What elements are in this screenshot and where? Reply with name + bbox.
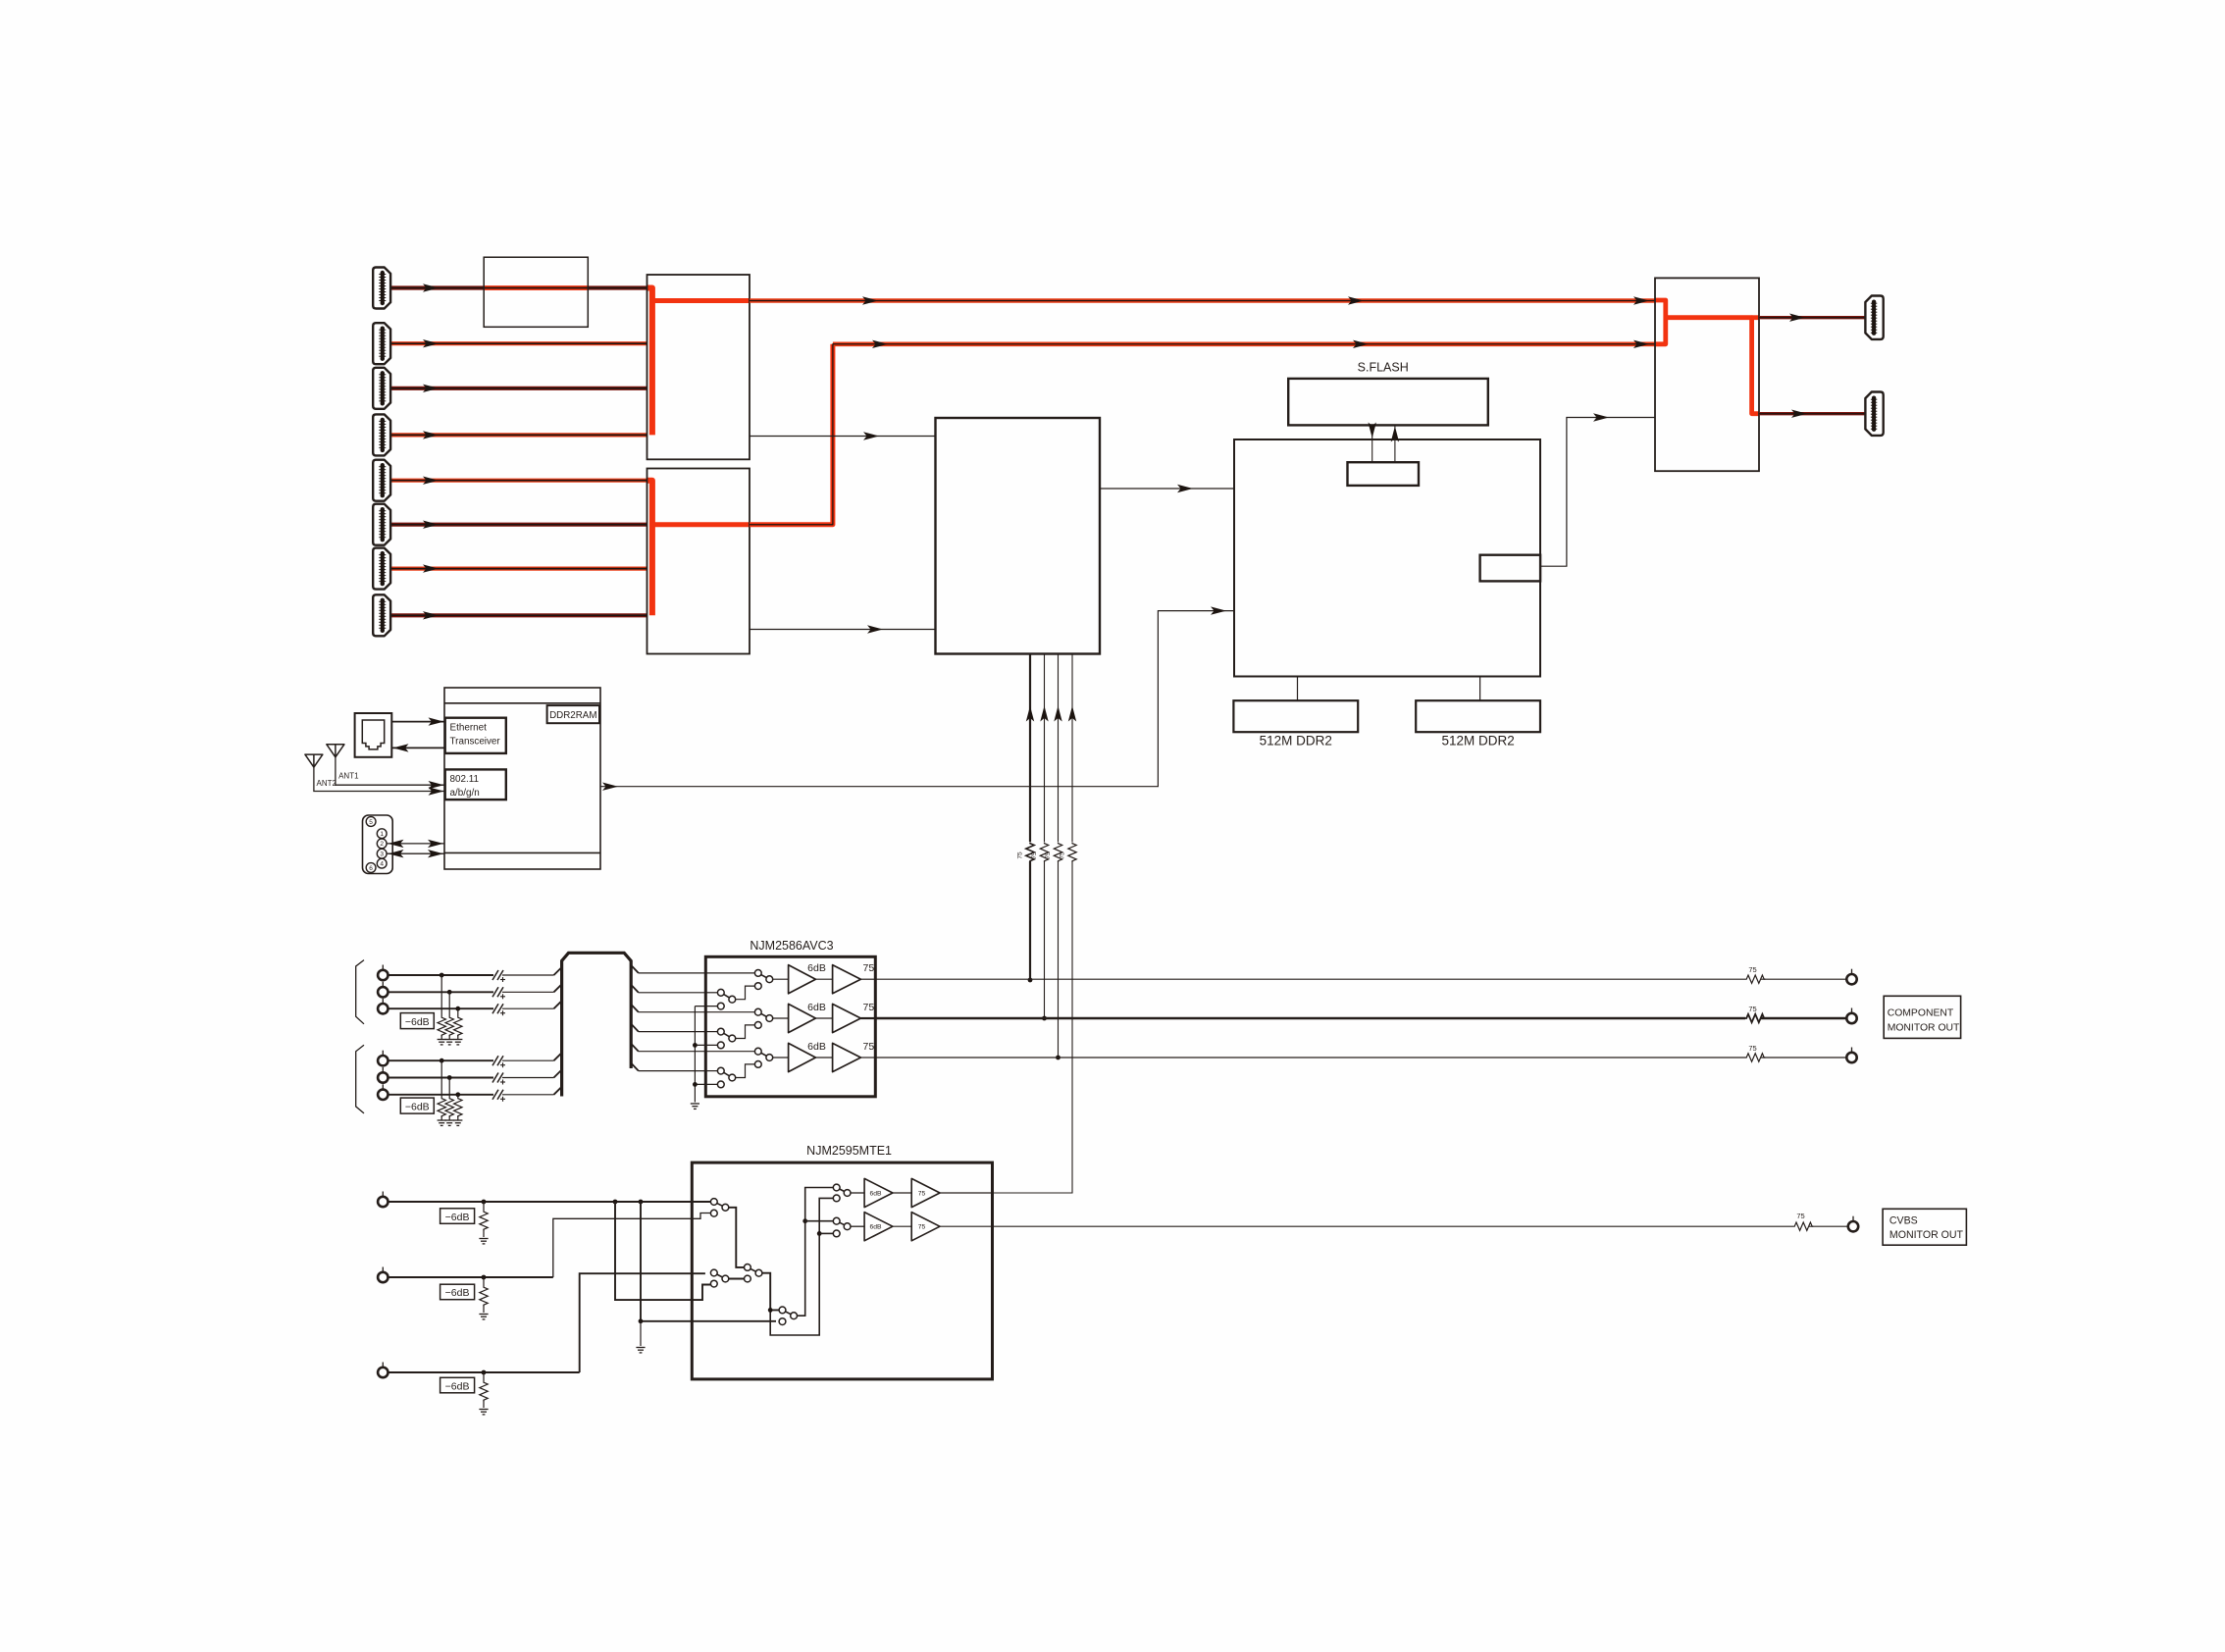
svg-text:6dB: 6dB	[869, 1190, 882, 1197]
core of switch A output line	[750, 300, 1655, 302]
wire receiver to SoC	[1100, 488, 1234, 490]
row2 amp link	[815, 1017, 832, 1019]
core of switch B output line	[750, 344, 1655, 525]
bus exit tap 6	[631, 1063, 639, 1071]
switch D common riser	[797, 1188, 833, 1316]
core wire HDMI OUT 2	[1759, 413, 1865, 415]
switch B top contact	[710, 1269, 717, 1276]
svg-text:75: 75	[1017, 852, 1024, 859]
svg-text:4: 4	[380, 861, 384, 868]
svg-text:75: 75	[1748, 1044, 1756, 1053]
svg-text:6dB: 6dB	[807, 1002, 826, 1013]
HDMI output connector 2	[1865, 392, 1883, 436]
RCA jack component group2 3	[378, 1084, 388, 1100]
amp 75 NJM2595 row2	[911, 1213, 940, 1241]
row1 stage1 to stage2 wire	[736, 986, 755, 1000]
switch F bar	[837, 1221, 848, 1227]
-6dB attenuator label group1	[400, 1013, 434, 1029]
svg-text:S.FLASH: S.FLASH	[1358, 361, 1409, 375]
row1 stage1 switch bar	[721, 993, 733, 1000]
row2 stage1 bottom contact	[717, 1042, 724, 1049]
NJM2586 ground bus	[694, 1007, 696, 1103]
row2 input B wire	[705, 1031, 717, 1033]
pin 6 of control connector	[366, 863, 376, 873]
row3 input B wire	[705, 1070, 717, 1072]
wire HDMI IN 7 to switch block	[390, 566, 647, 570]
row3 stage1 bottom contact	[717, 1081, 724, 1088]
bus exit tap 2	[631, 985, 639, 993]
junction ground bus row2	[693, 1043, 698, 1048]
switch E bottom contact	[833, 1195, 840, 1202]
arrow on HDMI IN 6 wire	[423, 521, 439, 529]
switch A top contact	[710, 1199, 717, 1206]
Ethernet Transceiver box	[445, 718, 506, 753]
row1 stage1 common contact	[729, 996, 736, 1003]
bus tap group1 line 1	[554, 967, 562, 975]
bus tap group2 line 2	[554, 1070, 562, 1078]
arrow on HDMI IN 4 wire	[423, 431, 439, 439]
arrow up to S.FLASH	[1391, 427, 1399, 442]
svg-text:6dB: 6dB	[807, 1041, 826, 1053]
512M DDR2 memory right	[1416, 700, 1540, 732]
resistor 75 Y out	[1745, 975, 1765, 983]
802.11 box	[445, 769, 506, 800]
svg-text:ANT1: ANT1	[338, 772, 359, 781]
row1 output to edge NJM2595	[940, 1192, 993, 1194]
RCA jack component group2 1	[378, 1051, 388, 1066]
wire active path through equalizer	[484, 285, 589, 290]
COMPONENT MONITOR OUT label box	[1884, 996, 1960, 1038]
svg-text:−6dB: −6dB	[405, 1016, 430, 1028]
termination resistor group2 1	[438, 1098, 445, 1117]
svg-text:Ethernet: Ethernet	[450, 723, 488, 734]
pin 2 of control connector	[377, 839, 387, 849]
RJ45 inner outline	[362, 720, 384, 749]
component input group1 line 3	[388, 1007, 494, 1009]
arrow on switch A output line	[1633, 296, 1649, 304]
row1 stage2 switch bar	[758, 973, 770, 979]
bus exit wire 5	[639, 1051, 706, 1053]
switch E bar	[837, 1188, 848, 1194]
ground group1 1	[438, 1040, 446, 1045]
wire S.FLASH to controller (down)	[1371, 425, 1373, 462]
video encoder switch IC NJM2595MTE1	[692, 1162, 992, 1379]
red hot segment switch B output corner	[750, 344, 833, 525]
wire HDMI IN 1 to switch block	[390, 285, 647, 289]
resistor 75 CVBS out	[1793, 1222, 1813, 1230]
core wire HDMI OUT 1	[1759, 317, 1865, 319]
switch F to amp	[851, 1225, 864, 1227]
HDMI input connector J5	[373, 460, 390, 501]
wire core HDMI IN 3	[390, 387, 647, 389]
CVBS2 resistor lead	[483, 1277, 485, 1286]
switch E top contact	[833, 1184, 840, 1191]
row2 stage2 switch bar	[758, 1012, 770, 1018]
row3 stage2 top contact	[754, 1048, 761, 1055]
switch A bottom contact	[710, 1210, 717, 1216]
arrow receiver to SoC	[1177, 485, 1193, 492]
switch C bottom contact	[745, 1275, 751, 1282]
resistor 75 Pb out	[1745, 1014, 1765, 1022]
bus exit tap 3	[631, 1005, 639, 1012]
svg-text:−6dB: −6dB	[445, 1287, 470, 1299]
HDMI output connector 1	[1865, 296, 1883, 339]
switch C bar NJM2595	[748, 1267, 759, 1273]
arrow switch B to receiver	[867, 625, 883, 633]
component input group1 line 2	[388, 991, 494, 993]
junction resistor group1 line 3	[455, 1007, 460, 1011]
CVBS1 resistor lead	[483, 1202, 485, 1211]
-6dB attenuator label CVBS2	[440, 1284, 475, 1300]
HDMI input connector J6	[373, 504, 390, 545]
RCA jack CVBS out	[1848, 1216, 1858, 1232]
svg-text:6dB: 6dB	[807, 962, 826, 974]
vertical Pb video line to receiver	[1044, 654, 1046, 1019]
bus exit wire 3	[639, 1011, 706, 1013]
cable marker group2 line 3	[492, 1090, 505, 1102]
resistor lead group1 3	[457, 1008, 459, 1016]
arrow SoC to TX block	[1593, 413, 1609, 421]
antenna ANT2	[305, 754, 323, 767]
equalizer block	[484, 257, 588, 327]
arrow on switch A output line	[1348, 296, 1364, 304]
RCA jack Pb out	[1846, 1008, 1856, 1024]
row2 stage1 to stage2 wire	[736, 1025, 755, 1039]
HDMI receiver block	[936, 418, 1101, 654]
CVBS input 2 line	[388, 1276, 553, 1278]
switch B bar NJM2595	[714, 1273, 726, 1279]
row1 stage2 bottom contact	[754, 983, 761, 990]
wire RJ45 to ethernet TX	[391, 721, 444, 723]
6-pin control connector	[363, 815, 393, 874]
switch F bottom contact	[833, 1230, 840, 1237]
wire pin3 to module	[387, 852, 444, 854]
vertical Pr video line to receiver	[1058, 654, 1060, 1058]
arrow on HDMI IN 5 wire	[423, 477, 439, 485]
svg-text:75: 75	[918, 1224, 926, 1231]
HDMI input connector J7	[373, 548, 390, 590]
SoC main processor block	[1234, 439, 1540, 677]
svg-text:CVBS: CVBS	[1889, 1215, 1918, 1227]
switch A common	[722, 1204, 729, 1211]
wire HDMI IN 5 to switch block	[390, 479, 647, 483]
termination resistor CVBS1	[480, 1211, 488, 1230]
row2 stage1 common contact	[729, 1035, 736, 1042]
svg-text:75: 75	[1060, 852, 1066, 859]
svg-text:75: 75	[1796, 1212, 1804, 1220]
row1 output inside block	[860, 978, 875, 980]
row2 stage2 bottom contact	[754, 1022, 761, 1029]
active path through TX block	[1666, 318, 1759, 414]
active path TX to out 1	[1752, 315, 1759, 320]
amp 6dB NJM2595 row1	[864, 1178, 893, 1207]
switch A common wire	[729, 1208, 745, 1267]
row1 amp link	[815, 978, 832, 980]
ground group1 2	[445, 1040, 454, 1045]
row2 stage1 top contact	[717, 1028, 724, 1035]
input group 1 brace	[356, 960, 364, 1024]
arrow up into receiver	[1040, 706, 1048, 722]
row2 stage2 top contact	[754, 1008, 761, 1015]
row2 stage2 to amp wire	[773, 1017, 789, 1019]
active path stub out of switch B	[652, 522, 750, 527]
wire to bus group2 line 2	[502, 1077, 554, 1079]
arrow on HDMI IN 1 wire	[423, 284, 439, 291]
wire core HDMI IN 8	[390, 614, 647, 616]
video switch IC NJM2586AVC3	[705, 956, 875, 1097]
bus exit tap 4	[631, 1024, 639, 1032]
resistor 75 on vertical line 3	[1054, 843, 1061, 862]
svg-text:−6dB: −6dB	[445, 1380, 470, 1392]
arrow on switch B output line	[1353, 340, 1369, 348]
HDMI input connector J4	[373, 414, 390, 455]
junction resistor group2 line 1	[440, 1058, 444, 1063]
switch B common wire	[729, 1278, 745, 1280]
junction bypass start	[768, 1308, 773, 1313]
row3 output inside block	[860, 1057, 875, 1058]
wire core HDMI IN 4	[390, 434, 647, 436]
switch B bottom contact	[710, 1280, 717, 1287]
junction riser to switch F	[802, 1218, 807, 1223]
cable marker group1 line 2	[492, 987, 505, 999]
arrow on HDMI IN 8 wire	[423, 611, 439, 619]
svg-text:75: 75	[863, 1041, 875, 1053]
bus tap group2 line 3	[554, 1087, 562, 1095]
wire switch A to HDMI receiver	[750, 436, 936, 438]
Pb line to jack	[1761, 1017, 1846, 1019]
row3 stage2 bottom contact	[754, 1061, 761, 1068]
svg-text:−6dB: −6dB	[405, 1101, 430, 1112]
switch C common wire	[762, 1273, 779, 1311]
ground group2 1	[438, 1120, 446, 1125]
wire ANT1 to 802.11	[336, 757, 445, 785]
row3 input A wire	[705, 1051, 754, 1053]
amp 75 NJM2595 row1	[911, 1178, 940, 1207]
svg-text:MONITOR OUT: MONITOR OUT	[1889, 1229, 1964, 1241]
HDMI switch block A	[647, 275, 750, 459]
junction resistor group2 line 2	[447, 1075, 452, 1080]
row3 amp link	[815, 1057, 832, 1058]
ground NJM2595 input	[636, 1348, 645, 1353]
arrow to HDMI OUT 2	[1791, 410, 1807, 418]
amp link NJM2595 row2	[893, 1225, 911, 1227]
bus exit tap 5	[631, 1044, 639, 1052]
svg-text:2: 2	[380, 841, 384, 848]
RCA jack CVBS input 2	[378, 1267, 388, 1283]
svg-text:75: 75	[1045, 852, 1052, 859]
vertical Y video line to receiver	[1029, 654, 1031, 981]
amp 75 row3	[833, 1043, 861, 1071]
junction bypass to switch F bottom	[817, 1231, 822, 1236]
wire TX to HDMI OUT 1	[1759, 316, 1865, 319]
junction ground bus row3	[693, 1082, 698, 1087]
row2 input A wire	[705, 1011, 754, 1013]
switch E to amp	[851, 1192, 864, 1194]
512M DDR2 memory left	[1233, 700, 1358, 732]
cable marker group1 line 3	[492, 1004, 505, 1015]
RCA jack CVBS input 3	[378, 1363, 388, 1378]
component input bus	[562, 953, 632, 1096]
ground stub wire	[640, 1321, 642, 1346]
row2 output inside block	[860, 1017, 875, 1019]
junction CVBS1 resistor	[482, 1200, 487, 1205]
ground group2 3	[453, 1120, 462, 1125]
CVBS1 branch to switch D lower	[641, 1202, 776, 1321]
wire pin2 to module	[387, 843, 444, 845]
svg-text:75: 75	[1031, 852, 1038, 859]
row3 stage1 top contact	[717, 1067, 724, 1074]
amp 6dB NJM2595 row2	[864, 1213, 893, 1241]
network module block	[444, 688, 600, 869]
wire ANT2 to 802.11	[314, 767, 445, 791]
antenna ANT1	[327, 745, 344, 757]
red line switch A output to HDMI TX block	[750, 298, 1655, 303]
-6dB attenuator label group2	[400, 1098, 434, 1113]
switch C top contact	[745, 1265, 751, 1271]
ground group2 2	[445, 1120, 454, 1125]
wire ethernet to RJ45	[391, 747, 444, 749]
row3 stage1 common contact	[729, 1074, 736, 1081]
active path stub out of switch A	[652, 298, 750, 303]
ground group1 3	[453, 1040, 462, 1045]
row1 stage2 to amp wire	[773, 978, 789, 980]
Pb monitor line (bold)	[875, 1017, 1745, 1019]
arrow up into receiver	[1068, 706, 1076, 722]
row2 stage2 common contact	[766, 1015, 773, 1022]
row1 stage1 bottom contact	[717, 1003, 724, 1009]
svg-text:75: 75	[918, 1190, 926, 1197]
row1 stage2 top contact	[754, 970, 761, 977]
resistor 75 on vertical line 1	[1026, 843, 1034, 862]
cable marker group2 line 2	[492, 1073, 505, 1085]
arrow into ethernet transceiver	[429, 717, 444, 725]
junction resistor group1 line 1	[440, 973, 444, 978]
arrow on 802.11 wire	[602, 783, 618, 791]
arrow into SoC from 802.11	[1211, 606, 1226, 614]
svg-text:DDR2RAM: DDR2RAM	[549, 710, 596, 721]
component input group2 line 2	[388, 1077, 494, 1079]
bus exit wire 4	[639, 1031, 706, 1033]
S.FLASH block	[1288, 379, 1488, 426]
svg-text:Transceiver: Transceiver	[450, 737, 501, 748]
HDMI switch block B	[647, 469, 750, 654]
RCA jack Pr out	[1846, 1048, 1856, 1063]
CVBS3 riser to switch B upper	[580, 1273, 705, 1372]
junction resistor group1 line 2	[447, 990, 452, 995]
switch B common	[722, 1275, 729, 1282]
wire to bus group1 line 1	[502, 974, 554, 976]
SoC output port box	[1480, 555, 1541, 582]
RCA jack Y out	[1846, 969, 1856, 985]
CVBS3 resistor lead	[483, 1372, 485, 1381]
Pr line to jack	[1761, 1057, 1846, 1058]
wire HDMI IN 8 to switch block	[390, 613, 647, 617]
svg-text:802.11: 802.11	[450, 774, 480, 785]
amp 75 row1	[833, 965, 861, 994]
row1 stage2 common contact	[766, 976, 773, 983]
resistor 75 Pr out	[1745, 1054, 1765, 1061]
termination resistor group1 3	[454, 1016, 462, 1036]
wire HDMI IN 6 to switch block	[390, 523, 647, 527]
row2 unused input to bus	[695, 1044, 717, 1046]
component input group2 line 1	[388, 1059, 494, 1061]
termination resistor CVBS3	[480, 1381, 488, 1401]
red line switch B output to HDMI TX block	[833, 341, 1655, 346]
Y line to jack	[1761, 978, 1846, 980]
-6dB attenuator label CVBS1	[440, 1209, 475, 1224]
resistor lead group2 2	[448, 1078, 450, 1098]
switch F top contact	[833, 1217, 840, 1224]
wire to bus group1 line 3	[502, 1007, 554, 1009]
amp 6dB row3	[789, 1043, 816, 1071]
HDMI input connector J1	[373, 268, 390, 309]
amp link NJM2595 row1	[893, 1192, 911, 1194]
CVBS line to jack	[1809, 1225, 1848, 1227]
wire to bus group1 line 2	[502, 991, 554, 993]
svg-text:5: 5	[369, 819, 373, 826]
termination resistor group2 3	[454, 1098, 462, 1117]
row3 stage2 switch bar	[758, 1052, 770, 1058]
wire TX to HDMI OUT 2	[1759, 412, 1865, 415]
resistor lead group1 1	[440, 975, 442, 1016]
cable marker group1 line 1	[492, 970, 505, 982]
svg-text:75: 75	[1748, 1005, 1756, 1013]
wire SoC to DDR2 left	[1297, 677, 1299, 701]
arrow up into receiver	[1026, 706, 1034, 722]
amp 6dB row2	[789, 1004, 816, 1032]
network module bottom rule	[444, 852, 600, 853]
CVBS input 1 line	[388, 1201, 711, 1203]
switch E common	[844, 1190, 851, 1197]
row1 stage1 top contact	[717, 989, 724, 996]
RCA jack component group1 2	[378, 982, 388, 998]
svg-text:1: 1	[380, 831, 384, 838]
svg-text:512M DDR2: 512M DDR2	[1441, 734, 1514, 749]
row2 stage1 switch bar	[721, 1032, 733, 1039]
wire core HDMI IN 1	[390, 287, 647, 289]
wire core HDMI IN 5	[390, 480, 647, 482]
junction CVBS3 resistor	[482, 1370, 487, 1375]
wire to bus group2 line 3	[502, 1094, 554, 1096]
pin 1 of control connector	[377, 829, 387, 839]
switch D top contact	[779, 1307, 786, 1314]
arrow into RJ45	[393, 744, 409, 751]
network module top rule	[444, 702, 600, 704]
junction CVBS1 branch A	[613, 1200, 618, 1205]
arrow down from S.FLASH	[1369, 423, 1376, 439]
branch to switch F top	[805, 1220, 834, 1222]
CVBS2 riser to switch A lower	[553, 1213, 711, 1278]
termination resistor group2 2	[445, 1098, 453, 1117]
resistor 75 on vertical line 4	[1068, 843, 1076, 862]
bypass wire to amp switches	[770, 1198, 833, 1335]
arrow ANT2 into 802.11	[429, 787, 444, 795]
arrow on switch B output line	[872, 340, 888, 348]
junction Y line	[1028, 978, 1033, 983]
arrow switch A to receiver	[863, 432, 879, 439]
-6dB attenuator label CVBS3	[440, 1377, 475, 1393]
wire core HDMI IN 6	[390, 524, 647, 526]
bus exit wire 1	[639, 972, 706, 974]
arrow up into receiver	[1054, 706, 1061, 722]
arrow ANT1 into 802.11	[429, 781, 444, 789]
branch bypass to switch F bottom	[819, 1232, 833, 1234]
bus tap group2 line 1	[554, 1053, 562, 1060]
svg-text:NJM2586AVC3: NJM2586AVC3	[750, 939, 833, 953]
resistor lead group1 2	[448, 992, 450, 1016]
svg-text:COMPONENT: COMPONENT	[1888, 1007, 1954, 1018]
junction Pb line	[1042, 1016, 1047, 1021]
